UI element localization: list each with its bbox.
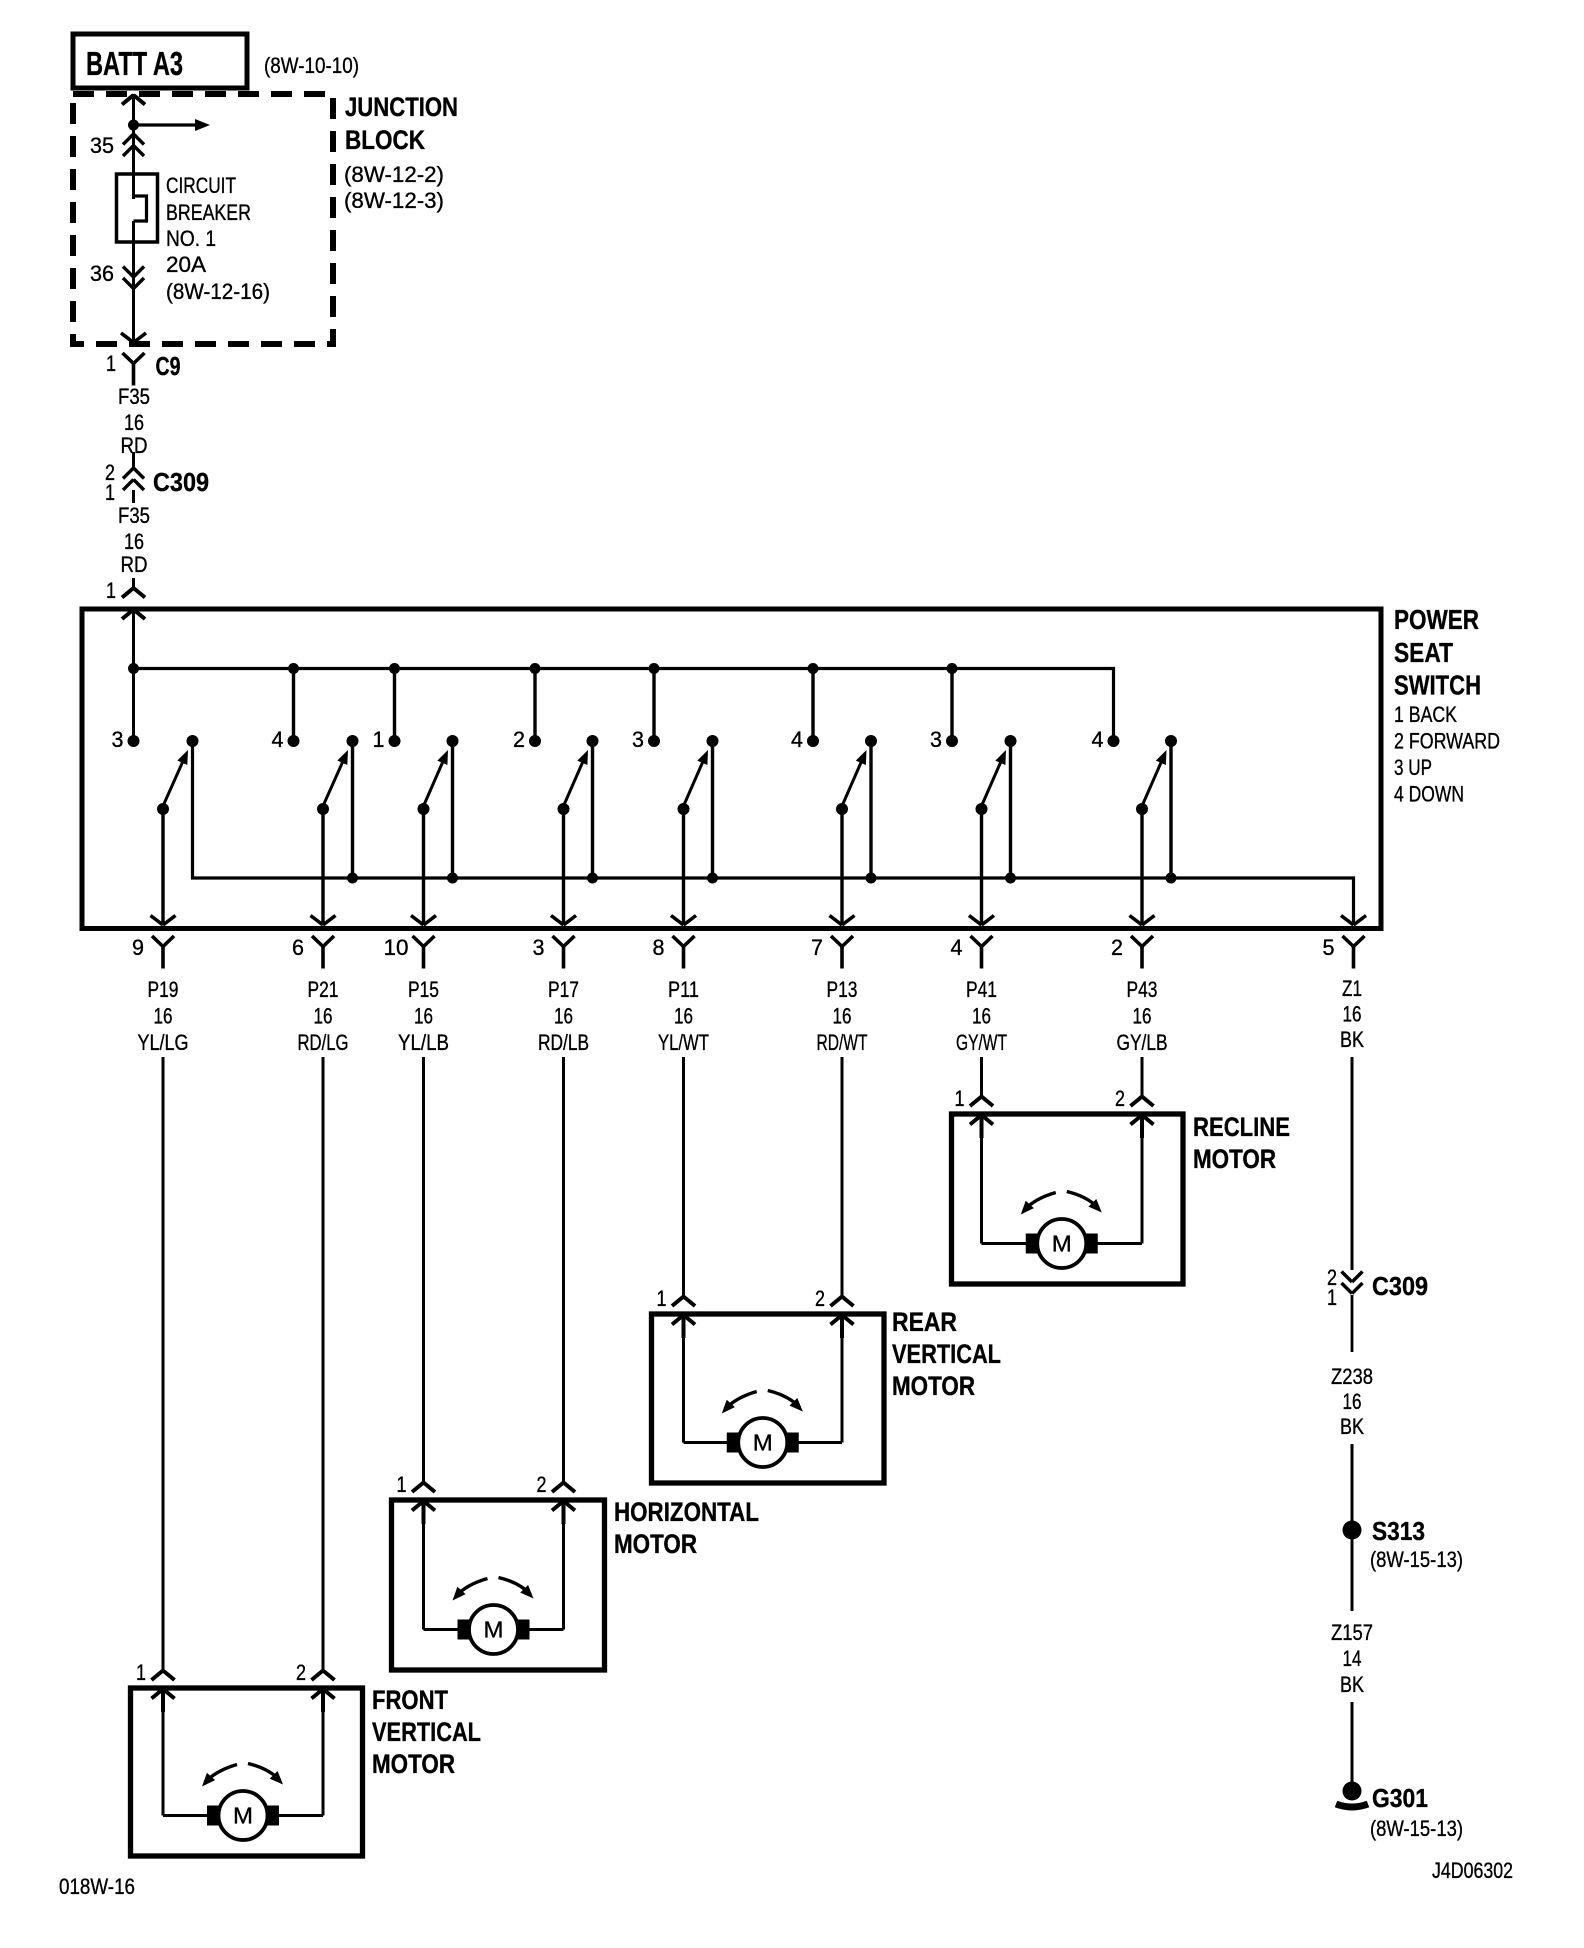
svg-text:C309: C309 xyxy=(1372,1271,1428,1301)
svg-text:MOTOR: MOTOR xyxy=(1193,1144,1276,1174)
switch 6 output wire pin 7 xyxy=(840,809,843,925)
svg-text:1: 1 xyxy=(397,1472,407,1497)
RECLINE motor internal wiring xyxy=(980,1116,983,1244)
svg-text:16: 16 xyxy=(124,410,144,435)
svg-text:(8W-12-3): (8W-12-3) xyxy=(344,188,444,213)
wire to HORIZONTAL pin 2 xyxy=(562,1057,565,1483)
svg-text:G301: G301 xyxy=(1372,1783,1428,1813)
bus output arrow pin 5 xyxy=(1341,916,1354,926)
switch 8 contact dot xyxy=(1108,735,1120,747)
switch 2 throw contact and wire to common bus xyxy=(351,741,354,878)
connector arrow at junction block bottom xyxy=(121,333,134,343)
svg-text:2: 2 xyxy=(1115,1086,1125,1111)
REAR motor M xyxy=(738,1418,787,1467)
svg-text:P11: P11 xyxy=(668,977,699,1002)
switch 7 wiper arm xyxy=(976,803,988,815)
RECLINE motor M xyxy=(1037,1219,1086,1268)
svg-text:3: 3 xyxy=(632,727,644,752)
switch 4 contact dot xyxy=(529,735,541,747)
connector arrow into junction block top xyxy=(122,95,134,105)
svg-text:M: M xyxy=(753,1430,773,1456)
svg-text:4: 4 xyxy=(951,935,963,960)
switch 7 output wire pin 4 xyxy=(980,809,983,925)
svg-text:M: M xyxy=(233,1803,253,1829)
svg-text:10: 10 xyxy=(384,935,409,960)
switch 2 output wire pin 6 xyxy=(321,809,324,925)
FRONT motor pin 2 entry arrow xyxy=(312,1689,324,1699)
RECLINE motor pin 2 entry arrow xyxy=(1131,1115,1143,1125)
power seat switch box xyxy=(82,609,1381,929)
svg-text:CIRCUIT: CIRCUIT xyxy=(166,173,236,198)
svg-text:16: 16 xyxy=(1343,1389,1362,1414)
svg-text:RD: RD xyxy=(121,552,148,577)
wire arrow to other circuits xyxy=(134,123,197,126)
svg-text:BK: BK xyxy=(1340,1414,1364,1439)
svg-text:1: 1 xyxy=(955,1086,965,1111)
HORIZONTAL motor M xyxy=(469,1605,518,1654)
RECLINE motor brush terminals xyxy=(1026,1234,1042,1254)
svg-text:4: 4 xyxy=(1092,727,1104,752)
svg-text:16: 16 xyxy=(1343,1002,1362,1027)
svg-text:3 UP: 3 UP xyxy=(1394,755,1432,780)
wire to REAR pin 2 xyxy=(841,1057,844,1297)
wire to HORIZONTAL pin 1 xyxy=(422,1057,425,1483)
svg-text:RD/LB: RD/LB xyxy=(538,1030,589,1055)
svg-text:P15: P15 xyxy=(408,977,439,1002)
switch 1 contact dot xyxy=(128,735,140,747)
wire to REAR pin 1 xyxy=(682,1057,685,1297)
connector chevrons pin 36 xyxy=(123,267,134,278)
FRONT motor pin 1 entry arrow xyxy=(152,1689,164,1699)
svg-text:16: 16 xyxy=(124,529,144,554)
switch 8 wiper arm xyxy=(1136,803,1148,815)
svg-text:1: 1 xyxy=(136,1660,146,1685)
svg-text:35: 35 xyxy=(90,133,114,158)
svg-text:6: 6 xyxy=(292,935,304,960)
FRONT motor internal wiring xyxy=(162,1690,165,1816)
svg-text:1: 1 xyxy=(106,351,116,376)
REAR VERTICAL MOTOR box xyxy=(652,1314,885,1483)
svg-text:YL/WT: YL/WT xyxy=(658,1030,709,1055)
svg-text:BLOCK: BLOCK xyxy=(345,125,425,155)
svg-text:MOTOR: MOTOR xyxy=(372,1749,455,1779)
HORIZONTAL motor rotation arrows xyxy=(456,1579,488,1597)
svg-text:(8W-15-13): (8W-15-13) xyxy=(1370,1816,1463,1841)
switch 8 output wire pin 2 xyxy=(1140,809,1143,925)
wire Z157 14 BK xyxy=(1351,1539,1354,1611)
svg-text:5: 5 xyxy=(1323,935,1335,960)
svg-text:1 BACK: 1 BACK xyxy=(1394,702,1457,727)
svg-text:VERTICAL: VERTICAL xyxy=(892,1339,1001,1369)
svg-text:VERTICAL: VERTICAL xyxy=(372,1717,481,1747)
switch 1 feed stub pin 3 xyxy=(128,663,139,674)
switch 5 wiper arm xyxy=(678,803,690,815)
svg-text:2: 2 xyxy=(537,1472,547,1497)
svg-text:2: 2 xyxy=(815,1286,825,1311)
svg-text:(8W-12-16): (8W-12-16) xyxy=(166,279,270,304)
svg-text:4: 4 xyxy=(791,727,803,752)
svg-text:P41: P41 xyxy=(966,977,997,1002)
svg-text:SWITCH: SWITCH xyxy=(1394,670,1481,701)
switch 8 throw contact and wire to common bus xyxy=(1169,741,1172,878)
switch 6 feed stub pin 4 xyxy=(811,669,814,742)
svg-text:NO. 1: NO. 1 xyxy=(166,226,216,251)
switch 1 output wire pin 9 xyxy=(161,809,164,925)
switch 2 contact dot xyxy=(288,735,300,747)
svg-text:16: 16 xyxy=(314,1004,333,1029)
switch 4 throw contact and wire to common bus xyxy=(591,741,594,878)
svg-text:(8W-15-13): (8W-15-13) xyxy=(1370,1547,1463,1572)
wire to RECLINE pin 2 xyxy=(1141,1057,1144,1097)
svg-text:P43: P43 xyxy=(1127,977,1158,1002)
switch 2 wiper arm xyxy=(317,803,329,815)
svg-text:3: 3 xyxy=(112,727,124,752)
switch 3 contact dot xyxy=(389,735,401,747)
svg-text:Z1: Z1 xyxy=(1342,976,1362,1001)
svg-text:S313: S313 xyxy=(1372,1516,1425,1546)
switch 5 feed stub pin 3 xyxy=(652,669,655,742)
svg-text:M: M xyxy=(1052,1231,1072,1257)
svg-text:MOTOR: MOTOR xyxy=(614,1529,697,1559)
wire to ground G301 xyxy=(1351,1702,1354,1785)
switch 2 feed stub pin 4 xyxy=(292,669,295,742)
switch 6 contact dot xyxy=(807,735,819,747)
HORIZONTAL motor brush terminals xyxy=(458,1620,474,1640)
switch 3 output wire pin 10 xyxy=(422,809,425,925)
svg-text:P19: P19 xyxy=(148,977,179,1002)
svg-text:20A: 20A xyxy=(166,252,206,277)
svg-text:HORIZONTAL: HORIZONTAL xyxy=(614,1497,759,1527)
svg-text:F35: F35 xyxy=(118,503,150,528)
HORIZONTAL motor internal wiring xyxy=(422,1502,425,1630)
svg-text:16: 16 xyxy=(833,1004,852,1029)
top feed bus xyxy=(134,669,1114,742)
svg-text:1: 1 xyxy=(373,727,385,752)
node splice to accessory feed xyxy=(128,120,139,131)
switch 4 output wire pin 3 xyxy=(562,809,565,925)
svg-text:JUNCTION: JUNCTION xyxy=(345,92,458,122)
switch 1 wiper arm xyxy=(157,803,169,815)
battery feed box BATT A3 xyxy=(73,34,247,88)
HORIZONTAL MOTOR box xyxy=(392,1500,605,1670)
svg-text:YL/LG: YL/LG xyxy=(138,1030,189,1055)
svg-text:2: 2 xyxy=(513,727,525,752)
svg-text:MOTOR: MOTOR xyxy=(892,1371,975,1401)
switch 6 wiper arm xyxy=(836,803,848,815)
switch 7 throw contact and wire to common bus xyxy=(1009,741,1012,878)
wire from BATT A3 into junction block xyxy=(132,95,135,199)
FRONT motor M xyxy=(219,1791,268,1840)
svg-text:9: 9 xyxy=(132,935,144,960)
svg-text:C9: C9 xyxy=(156,351,181,381)
switch 5 throw contact and wire to common bus xyxy=(711,741,714,878)
svg-text:Z238: Z238 xyxy=(1331,1364,1373,1389)
svg-text:GY/WT: GY/WT xyxy=(956,1030,1007,1055)
connector chevrons pin 35 xyxy=(123,134,134,145)
svg-text:2: 2 xyxy=(1111,935,1123,960)
svg-text:(8W-10-10): (8W-10-10) xyxy=(264,53,359,78)
switch 3 feed stub pin 1 xyxy=(393,669,396,742)
svg-text:7: 7 xyxy=(811,935,823,960)
svg-text:RD/LG: RD/LG xyxy=(298,1030,349,1055)
splice S313 xyxy=(1343,1521,1362,1540)
svg-text:GY/LB: GY/LB xyxy=(1117,1030,1168,1055)
HORIZONTAL motor pin 2 entry arrow xyxy=(552,1501,564,1511)
switch 5 contact dot xyxy=(648,735,660,747)
svg-text:2 FORWARD: 2 FORWARD xyxy=(1394,729,1500,754)
svg-text:F35: F35 xyxy=(118,384,150,409)
ground wire Z1 to C309 xyxy=(1351,1057,1354,1270)
switch 3 throw contact and wire to common bus xyxy=(451,741,454,878)
svg-text:8: 8 xyxy=(653,935,665,960)
FRONT VERTICAL MOTOR box xyxy=(131,1688,363,1856)
svg-text:C309: C309 xyxy=(153,467,209,497)
svg-text:BATT A3: BATT A3 xyxy=(86,45,183,82)
switch feed entry arrow xyxy=(122,610,134,620)
svg-text:018W-16: 018W-16 xyxy=(59,1874,135,1899)
connector C309 pins 2/1 right xyxy=(1342,1272,1353,1283)
REAR motor brush terminals xyxy=(727,1433,743,1453)
REAR motor pin 2 entry arrow xyxy=(831,1315,843,1325)
FRONT motor brush terminals xyxy=(207,1806,223,1826)
wire breaker to junction block bottom xyxy=(132,221,135,342)
svg-text:M: M xyxy=(484,1617,504,1643)
ground G301 xyxy=(1343,1782,1362,1801)
svg-text:1: 1 xyxy=(106,578,116,603)
svg-text:FRONT: FRONT xyxy=(372,1685,448,1715)
wire to RECLINE pin 1 xyxy=(980,1057,983,1097)
RECLINE MOTOR box xyxy=(952,1114,1184,1284)
REAR motor pin 1 entry arrow xyxy=(672,1315,684,1325)
svg-text:BK: BK xyxy=(1340,1027,1364,1052)
svg-text:BREAKER: BREAKER xyxy=(166,200,251,225)
connector C309 pins 2/1 xyxy=(132,452,135,468)
svg-text:14: 14 xyxy=(1343,1646,1362,1671)
svg-text:16: 16 xyxy=(154,1004,173,1029)
svg-text:P13: P13 xyxy=(827,977,858,1002)
svg-text:1: 1 xyxy=(1327,1285,1337,1310)
svg-text:YL/LB: YL/LB xyxy=(398,1030,449,1055)
svg-text:RECLINE: RECLINE xyxy=(1193,1112,1290,1142)
RECLINE motor pin 1 entry arrow xyxy=(970,1115,982,1125)
svg-text:16: 16 xyxy=(972,1004,991,1029)
switch 7 contact dot xyxy=(946,735,958,747)
svg-text:16: 16 xyxy=(414,1004,433,1029)
REAR motor internal wiring xyxy=(682,1316,685,1443)
HORIZONTAL motor pin 1 entry arrow xyxy=(412,1501,424,1511)
wire to FRONT pin 1 xyxy=(162,1057,165,1671)
svg-text:J4D06302: J4D06302 xyxy=(1432,1858,1513,1883)
switch 1 throw contact and wire to common bus xyxy=(187,735,199,747)
RECLINE motor rotation arrows xyxy=(1024,1193,1056,1211)
svg-text:P17: P17 xyxy=(548,977,579,1002)
svg-text:16: 16 xyxy=(674,1004,693,1029)
wire to splice S313 xyxy=(1351,1444,1354,1524)
svg-text:SEAT: SEAT xyxy=(1394,637,1453,668)
bottom common bus xyxy=(193,741,1354,925)
svg-text:Z157: Z157 xyxy=(1331,1620,1373,1645)
svg-text:3: 3 xyxy=(533,935,545,960)
switch 4 wiper arm xyxy=(558,803,570,815)
circuit breaker No.1 20A xyxy=(117,174,158,242)
FRONT motor rotation arrows xyxy=(205,1765,237,1783)
svg-text:POWER: POWER xyxy=(1394,604,1479,635)
svg-text:4: 4 xyxy=(272,727,284,752)
junction block dashed box xyxy=(73,94,333,344)
switch 7 feed stub pin 3 xyxy=(950,669,953,742)
svg-text:16: 16 xyxy=(554,1004,573,1029)
svg-text:1: 1 xyxy=(657,1286,667,1311)
svg-text:BK: BK xyxy=(1340,1672,1364,1697)
svg-text:RD/WT: RD/WT xyxy=(817,1030,868,1055)
svg-text:REAR: REAR xyxy=(892,1307,957,1337)
switch 6 throw contact and wire to common bus xyxy=(869,741,872,878)
feed wire to bus xyxy=(132,610,135,741)
svg-text:16: 16 xyxy=(1133,1004,1152,1029)
wire to FRONT pin 2 xyxy=(322,1057,325,1671)
svg-text:36: 36 xyxy=(90,261,114,286)
svg-text:2: 2 xyxy=(296,1660,306,1685)
switch 5 output wire pin 8 xyxy=(682,809,685,925)
svg-text:(8W-12-2): (8W-12-2) xyxy=(344,162,444,187)
REAR motor rotation arrows xyxy=(725,1392,757,1410)
svg-text:P21: P21 xyxy=(308,977,339,1002)
svg-text:1: 1 xyxy=(105,480,115,505)
svg-text:3: 3 xyxy=(930,727,942,752)
svg-text:4 DOWN: 4 DOWN xyxy=(1394,782,1464,807)
switch 4 feed stub pin 2 xyxy=(533,669,536,742)
switch 3 wiper arm xyxy=(418,803,430,815)
